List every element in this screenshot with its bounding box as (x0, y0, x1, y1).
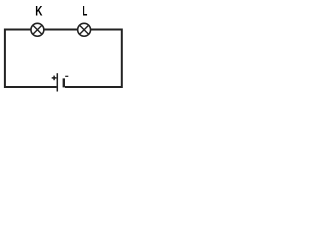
battery negative plate (short thick) (63, 78, 65, 87)
wire: top middle segment between lamps (44, 29, 78, 31)
lamp K (31, 23, 44, 36)
minus label (65, 76, 68, 77)
plus label (52, 76, 57, 81)
svg-text:L: L (83, 3, 88, 19)
svg-text:K: K (35, 3, 43, 19)
lamp L (78, 23, 91, 36)
wire: top-left segment, left vertical, bottom-left segment (5, 30, 57, 88)
wire: top-right segment, right vertical, bottom-right segment (65, 30, 122, 88)
battery positive plate (long) (56, 73, 58, 91)
